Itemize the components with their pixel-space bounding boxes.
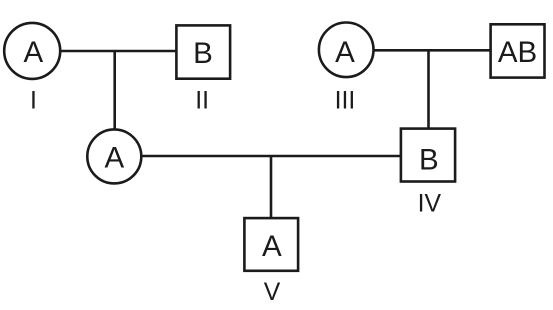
wire couple III-AB horizontal <box>372 49 492 52</box>
svg-text:A: A <box>335 36 355 69</box>
svg-text:IV: IV <box>418 191 442 218</box>
wire couple I-II horizontal <box>58 50 177 53</box>
svg-text:V: V <box>264 279 281 306</box>
svg-text:I: I <box>30 87 37 114</box>
svg-text:B: B <box>193 37 213 70</box>
svg-text:III: III <box>335 87 356 114</box>
svg-text:II: II <box>195 87 209 114</box>
wire descent from couple A-B to individual A V <box>270 156 273 219</box>
svg-text:A: A <box>23 36 43 69</box>
svg-text:B: B <box>419 143 439 176</box>
square individual V blood type A <box>244 218 298 271</box>
svg-text:AB: AB <box>498 36 537 69</box>
wire descent from couple III-AB to individual B IV <box>427 50 430 129</box>
svg-text:A: A <box>104 142 124 175</box>
circle individual I blood type A <box>4 23 60 79</box>
square individual IV blood type B <box>401 129 455 182</box>
square individual II blood type B <box>176 25 230 78</box>
square individual AB blood type AB <box>491 24 545 77</box>
circle individual III blood type A <box>319 23 374 78</box>
circle individual generation-2 blood type A <box>87 129 141 183</box>
wire descent from couple I-II to individual A (generation 2) <box>113 51 116 131</box>
wire couple A-B (generation 2) horizontal <box>140 155 402 158</box>
svg-text:A: A <box>262 230 282 263</box>
